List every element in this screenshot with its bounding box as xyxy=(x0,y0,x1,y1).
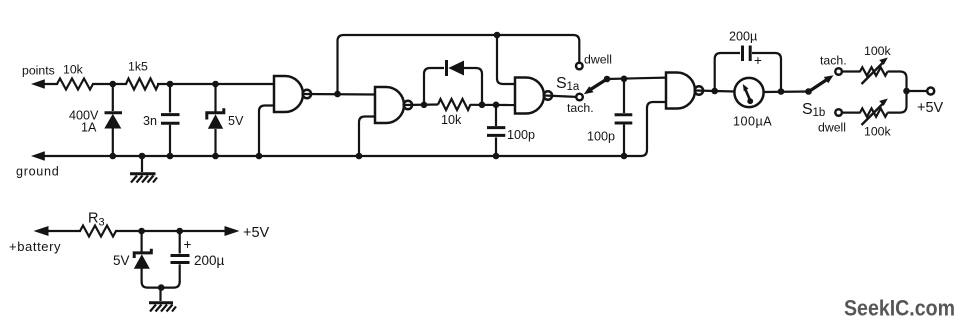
node ground/U1b riser xyxy=(356,153,363,160)
S1b tach contact xyxy=(835,68,842,75)
svg-text:5V: 5V xyxy=(228,114,244,128)
resistor 1k5 xyxy=(126,79,159,90)
svg-text:100p: 100p xyxy=(507,128,535,142)
capacitor C 3n xyxy=(161,84,180,156)
svg-text:100µA: 100µA xyxy=(733,115,772,129)
node on points line at cap 3n xyxy=(167,81,174,88)
S1b arm xyxy=(809,80,828,92)
potentiometer 100k upper xyxy=(842,58,888,85)
svg-text:1k5: 1k5 xyxy=(128,60,148,74)
node bottom join xyxy=(158,284,165,291)
meter M1 100uA xyxy=(734,78,763,107)
NAND gate U1c xyxy=(515,78,544,114)
wire feedback top xyxy=(338,35,580,94)
node meter/cap branch left xyxy=(711,88,718,95)
node ground/zener xyxy=(212,153,219,160)
wire S1a to U1d xyxy=(607,78,666,79)
S1a tach contact xyxy=(576,94,583,101)
node ground/100p-2 xyxy=(621,153,628,160)
capacitor C 100p first xyxy=(487,105,505,156)
S1b dwell contact xyxy=(835,109,842,116)
svg-text:tach.: tach. xyxy=(820,54,847,68)
S1a arm xyxy=(590,79,607,90)
zener Z1 5V xyxy=(207,84,224,156)
+5V terminal xyxy=(927,88,934,95)
node meter/cap branch right xyxy=(778,88,785,95)
wire U1b output to 10k xyxy=(405,103,439,106)
wire U1a output xyxy=(304,93,376,96)
diode D2 branch over 10k xyxy=(424,68,444,105)
svg-text:100k: 100k xyxy=(864,125,892,139)
node diode branch left xyxy=(421,102,428,109)
U1b output bubble xyxy=(404,101,412,109)
resistor 10k (feedback) xyxy=(438,99,471,110)
U1d output bubble xyxy=(695,86,703,94)
resistor R3 xyxy=(80,226,116,237)
svg-text:1A: 1A xyxy=(81,121,97,135)
U1a output bubble xyxy=(303,90,311,98)
svg-text:+: + xyxy=(184,237,192,252)
node ground/U1a riser xyxy=(256,153,263,160)
S1a pivot xyxy=(604,76,611,83)
wire feedback drop to U1c input xyxy=(497,35,515,84)
wire points line xyxy=(36,83,58,85)
svg-text:S: S xyxy=(556,75,567,92)
resistor 10k (points) xyxy=(57,79,93,90)
wire junction to +5V terminal xyxy=(907,90,928,92)
arrowhead ground xyxy=(31,151,45,160)
svg-text:R: R xyxy=(88,211,98,227)
svg-text:+5V: +5V xyxy=(243,225,270,241)
wire 10k to U1c xyxy=(470,104,515,106)
node pots junction xyxy=(903,88,910,95)
node on points line at zener xyxy=(212,81,219,88)
wire U1b lower input riser xyxy=(359,117,375,157)
wire U1a lower input riser xyxy=(259,106,274,157)
node ground/diode xyxy=(110,153,117,160)
wire ground line xyxy=(36,102,666,156)
S1a dwell contact xyxy=(576,63,583,70)
switch S1a xyxy=(576,63,610,101)
wire U1d output xyxy=(696,91,735,92)
arrowhead points xyxy=(31,79,45,88)
svg-text:dwell: dwell xyxy=(584,53,612,67)
capacitor C 100p second xyxy=(615,79,633,156)
svg-text:S: S xyxy=(802,101,813,118)
NAND gate U1b xyxy=(375,87,404,123)
svg-text:points: points xyxy=(22,64,55,78)
svg-text:1a: 1a xyxy=(567,81,580,93)
zener Z2 5V xyxy=(134,231,152,282)
svg-text:ground: ground xyxy=(16,165,59,179)
svg-text:100p: 100p xyxy=(587,130,615,144)
capacitor C 200u branch xyxy=(715,53,740,91)
svg-text:+: + xyxy=(754,53,762,68)
capacitor C 200u bottom xyxy=(171,231,190,282)
svg-text:1b: 1b xyxy=(813,107,826,119)
wire zener/cap bottom join xyxy=(142,281,180,288)
svg-text:3: 3 xyxy=(99,217,105,229)
node diode branch right xyxy=(479,102,486,109)
node ground/gnd-symbol xyxy=(139,153,146,160)
wire battery line xyxy=(39,230,81,232)
svg-text:+5V: +5V xyxy=(917,100,944,116)
node ground/cap3n xyxy=(167,153,174,160)
diode D2 xyxy=(447,60,465,76)
switch S1b xyxy=(805,75,833,95)
svg-text:10k: 10k xyxy=(441,113,462,127)
svg-text:200µ: 200µ xyxy=(729,30,757,44)
node U1a output feedback xyxy=(334,91,341,98)
ground symbol bottom xyxy=(149,288,176,312)
svg-text:+battery: +battery xyxy=(9,239,61,254)
node battery/zener xyxy=(138,228,145,235)
diode D1 400V 1A xyxy=(104,84,122,156)
node ground/100p-1 xyxy=(493,153,500,160)
NAND gate U1a xyxy=(274,76,303,112)
svg-text:SeekIC.com: SeekIC.com xyxy=(844,296,955,321)
wire lower pot to junction xyxy=(888,91,907,113)
node battery/cap xyxy=(176,228,183,235)
potentiometer 100k lower xyxy=(842,99,888,126)
svg-text:3n: 3n xyxy=(143,114,157,128)
wire U1c output to S1a xyxy=(545,96,577,97)
wire diode branch right xyxy=(462,68,482,105)
svg-text:100k: 100k xyxy=(864,44,892,58)
svg-text:10k: 10k xyxy=(63,63,84,77)
wire meter to S1b xyxy=(764,90,809,93)
node 100p-2 top xyxy=(621,76,628,83)
arrowhead battery xyxy=(34,226,49,236)
node feedback to U1c xyxy=(494,32,501,39)
arrowhead +5V out xyxy=(225,226,240,236)
S1b pivot xyxy=(805,88,812,95)
svg-text:200µ: 200µ xyxy=(194,253,225,268)
svg-text:tach.: tach. xyxy=(567,101,594,115)
svg-text:dwell: dwell xyxy=(818,121,846,135)
node on points line at diode xyxy=(110,81,117,88)
svg-text:5V: 5V xyxy=(113,253,130,268)
node 100p-1 top xyxy=(493,102,500,109)
U1c output bubble xyxy=(544,91,552,99)
ground symbol main xyxy=(130,156,157,183)
wire upper pot to junction xyxy=(888,72,907,92)
NAND gate U1d xyxy=(666,73,695,109)
